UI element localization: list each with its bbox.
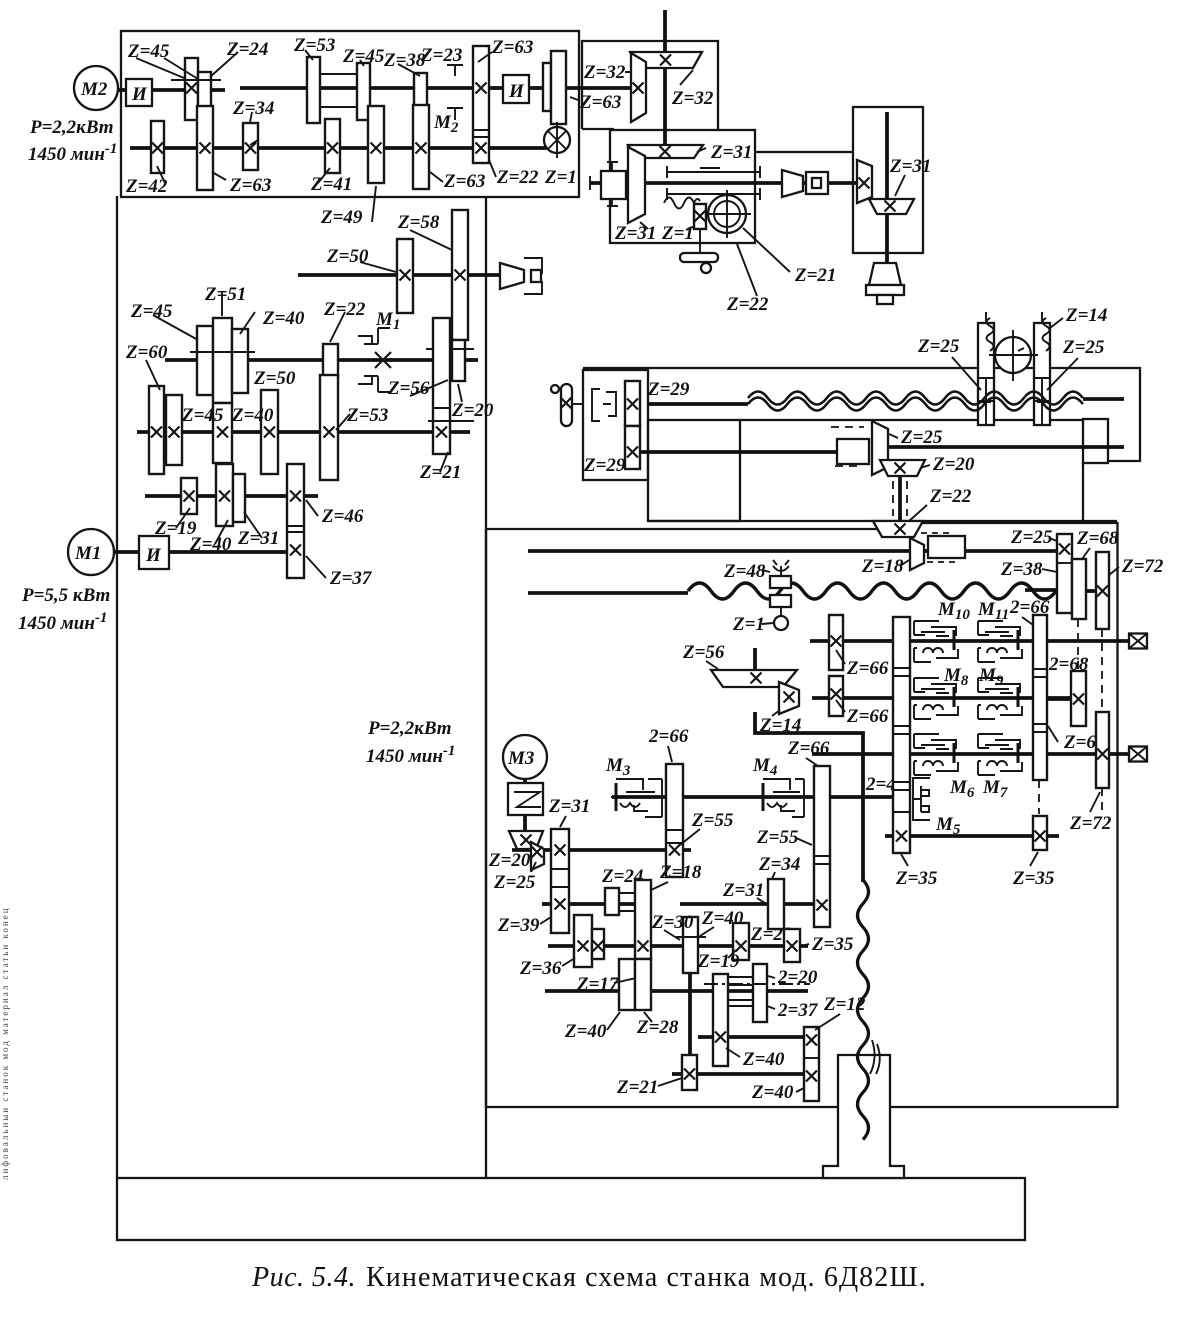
gear Z=20 below Z58 [452,340,465,381]
sleeve links W-X [728,977,753,1006]
svg-text:Z=63: Z=63 [229,175,271,196]
gear Z=49 [368,106,384,183]
gear Z=63/Z=22 block [473,46,489,163]
gear Z=66 right column [814,766,830,927]
bevel Z=31 horizontal [628,145,703,158]
wire feed long shaft lower [528,591,688,595]
clutch M3 [615,783,618,811]
svg-text:Р=2,2кВт: Р=2,2кВт [367,718,452,739]
svg-text:Z=25: Z=25 [1010,527,1053,548]
wire clutch row 3 shaft [812,752,1129,756]
dash below Z66 col [1038,780,1040,814]
svg-text:Z=21: Z=21 [794,265,836,286]
svg-text:Z=37: Z=37 [329,568,373,589]
gear Z=53 (I) [307,57,320,123]
svg-text:Z=18: Z=18 [861,556,904,577]
svg-text:Z=22: Z=22 [496,167,539,188]
cone output [500,263,524,289]
svg-text:Р=5,5 кВт: Р=5,5 кВт [21,585,110,606]
gear Z=36 [574,915,592,967]
gear Z=51 shaft II [213,318,232,403]
belt box И second [503,75,529,103]
svg-text:Z=51: Z=51 [204,284,246,305]
small gear Z=1 vertical [694,204,706,229]
svg-text:Z=32: Z=32 [671,88,714,109]
wire cardan solid shaft [898,476,902,520]
bevel Z=31 vertical right [857,160,872,203]
wire crank lower shaft [640,450,840,454]
gear Z=50 shaft III [261,390,278,474]
svg-text:Z=29: Z=29 [583,455,626,476]
svg-text:Z=68: Z=68 [1076,528,1119,549]
sleeve on overarm shaft [667,166,760,200]
svg-text:Z=20: Z=20 [451,400,494,421]
wire feed row B shaft right [680,902,814,906]
bevel Z=25 on shaft [872,421,888,475]
saddle line [648,520,1117,522]
left column housing left edge [116,196,118,1178]
wire vertical link D-F [688,972,692,1056]
handwheel [699,229,701,253]
svg-text:Z=53: Z=53 [293,35,335,56]
bevel Z=25 M3 [531,842,544,870]
centerline [704,983,810,985]
svg-text:Z=63: Z=63 [491,37,533,58]
dash below Z68 col [1077,619,1079,671]
gear Z=18 column [635,880,651,959]
svg-text:Z=25: Z=25 [1062,337,1105,358]
handwheel circle [995,337,1031,373]
svg-text:2=37: 2=37 [777,1000,819,1021]
cardan dash left [892,481,894,516]
motor M2 [74,66,118,110]
bearing marks right nut [1035,378,1049,402]
svg-text:Z=40: Z=40 [262,308,305,329]
wire clutch row 1 shaft [810,639,1129,643]
wire M3-M4 shaft [612,795,898,799]
svg-text:Z=50: Z=50 [326,246,369,267]
bevel housing top [582,41,718,129]
leaders left compartment [146,292,462,578]
wire right column vertical shaft [885,112,889,268]
gear Z=45b (I) [357,63,370,120]
feed telescopic wave [688,583,1056,599]
ratchet symbols [592,389,616,421]
clutch M8 [914,678,958,719]
svg-text:Z=30: Z=30 [651,912,694,933]
gear Z=60 [149,386,164,474]
svg-text:2=66: 2=66 [648,726,689,747]
gear Z=66 row2 left [829,676,843,716]
output coupling row3 [1129,747,1147,762]
svg-text:Z=56: Z=56 [387,378,430,399]
svg-text:Z=72: Z=72 [1069,813,1112,834]
clutch M1 [358,328,390,344]
svg-text:Z=40: Z=40 [564,1021,607,1042]
svg-text:Z=38: Z=38 [1000,559,1043,580]
svg-text:Z=20: Z=20 [488,850,531,871]
svg-text:Z=40: Z=40 [742,1049,785,1070]
wire drum shaft [298,273,500,277]
svg-text:Z=72: Z=72 [1121,556,1164,577]
svg-text:Z=25: Z=25 [493,872,536,893]
gear Z=68 lower gear [1071,671,1086,726]
gear Z=66 row1 left [829,615,843,670]
block dividers [433,408,450,421]
clutch M10 [914,621,958,662]
svg-text:1450 мин-1: 1450 мин-1 [18,610,107,634]
motor M3 [503,735,547,779]
gear Z=45 shaft III [166,395,182,465]
gear Z=12 col Y [804,1027,819,1101]
svg-text:Z=49: Z=49 [320,207,363,228]
nut housing left [978,323,994,425]
gear Z=31 lower [233,474,245,522]
gear Z=41 [325,119,340,173]
dash below Z72 upper [1101,629,1103,712]
wave accent arcs [870,1040,880,1074]
svg-text:Z=25: Z=25 [900,427,943,448]
wire feed row D shaft [545,989,808,993]
clutch M6 [914,734,958,775]
cone clutch [782,170,803,197]
svg-text:Z=31: Z=31 [614,223,656,244]
wire Z72 upper link [1086,589,1096,593]
gear Z=24 feed [605,888,619,915]
svg-text:Z=45: Z=45 [130,301,173,322]
wire spindle gearbox shaft II [130,146,555,150]
clutch M7 [978,734,1022,775]
wire feed row C shaft [548,944,808,948]
left coupling [582,128,614,130]
svg-text:лифовальныи станок мод материа: лифовальныи станок мод материал статьи к… [0,906,10,1180]
table inner line [740,419,1083,421]
gear Z=22 shaft II [323,344,338,377]
divider of block [473,130,489,137]
shifter Z=23 [447,65,463,76]
clutch M11 [978,621,1022,662]
dial circle Z=22/Z=21 [708,195,746,233]
wire Z68 link shaft [1047,697,1071,701]
dash below coupling [835,465,863,467]
bevel Z=14 vertical [779,682,799,714]
gear Z=40b shaft III [213,403,232,463]
clutch M9 [978,678,1022,719]
svg-text:Z=46: Z=46 [321,506,364,527]
gear Z=38 [414,73,427,107]
gear Z=35 M5 right [1033,816,1047,850]
wire clutch row 2 shaft [812,696,1072,700]
gear Z=66 left column [666,764,683,877]
bevel Z=20 M3 [509,831,543,849]
bearing marks left nut [979,378,993,402]
svg-text:Z=35: Z=35 [1012,868,1055,889]
gear Z=50 drum [397,239,413,313]
svg-text:Рис. 5.4.: Рис. 5.4. [251,1262,356,1293]
gear Z=29 upper [625,381,640,426]
wire feed row F shaft [672,1072,804,1076]
gear Z=72 upper column [1096,552,1109,629]
svg-text:Z=45: Z=45 [127,41,170,62]
wire spindle gearbox shaft I [152,88,225,92]
svg-text:Z=22: Z=22 [726,294,769,315]
cardan dash right [906,481,908,516]
gear Z=56 left block [433,318,450,454]
gear Z=19 feed [733,923,749,960]
svg-text:Z=42: Z=42 [125,176,168,197]
svg-text:Z=29: Z=29 [647,379,690,400]
motor M1 [68,529,114,575]
svg-text:Z=35: Z=35 [895,868,938,889]
output coupling row1 [1129,634,1147,649]
vertical divider wall [485,196,487,1178]
socket bracket [524,258,542,294]
belt box И M1 [139,536,169,569]
svg-text:Z=55: Z=55 [691,810,734,831]
svg-text:2=20: 2=20 [777,967,818,988]
svg-text:М1: М1 [74,543,101,564]
wire M3 motor vertical link [523,779,527,832]
gear Z=45 (I) [185,58,198,120]
machine base [117,1178,1025,1240]
gear Z=63 output narrow [543,63,551,111]
gear Z=58 drum [452,210,468,340]
wire M1 input shaft [168,550,287,554]
gear Z=29 lower [625,426,640,469]
leader Z=32 [570,70,693,100]
svg-text:Z=14: Z=14 [1065,305,1107,326]
svg-text:Z=18: Z=18 [659,862,702,883]
wire feed long shaft upper [528,549,1057,553]
overarm drive housing [610,130,755,243]
svg-text:Z=34: Z=34 [758,854,800,875]
svg-text:Z=17: Z=17 [576,974,620,995]
wire left shaft III [137,430,470,434]
gear Z=20 col X [753,964,767,1022]
svg-text:1450 мин-1: 1450 мин-1 [28,141,117,165]
table leadscrew wave [748,392,1083,405]
wire feed row A shaft [512,848,691,852]
gear Z=40 wide [619,959,635,1010]
svg-text:Z=40: Z=40 [231,405,274,426]
svg-text:Z=66: Z=66 [846,658,889,679]
svg-text:Z=55: Z=55 [756,827,799,848]
svg-text:Z=50: Z=50 [253,368,296,389]
bevel Z=20 [880,460,925,476]
gear Z=63 output [551,51,566,124]
variator box [508,783,543,815]
svg-text:Z=22: Z=22 [323,299,366,320]
svg-text:Z=1: Z=1 [661,223,694,244]
vertical flexible shaft wave [858,880,869,1140]
svg-text:Z=45: Z=45 [181,405,224,426]
svg-text:Кинематическая схема станка: Кинематическая схема станка мод. 6Д82Ш. [366,1262,927,1293]
gear Z=34 [243,123,258,170]
wire vertical bevel shaft [663,10,667,152]
svg-text:М2: М2 [80,79,108,100]
dash above coupling [831,426,864,428]
svg-text:Z=1: Z=1 [732,614,765,635]
svg-text:Z=66: Z=66 [787,738,830,759]
svg-text:Z=20: Z=20 [932,454,975,475]
gear Z=21 feed [682,1055,697,1090]
gear Z=25/Z=38 column [1057,534,1072,613]
gear Z=42 [151,121,164,173]
clutch M4 [762,783,765,811]
svg-text:Z=25: Z=25 [917,336,960,357]
bevel Z=32 horizontal [630,52,702,68]
spring wave [664,198,700,209]
speed gearbox housing [121,31,579,197]
worm circle Z=1 feed [780,607,782,617]
svg-text:Z=66: Z=66 [846,706,889,727]
wire feed row E shaft [698,1035,804,1039]
svg-text:Р=2,2кВт: Р=2,2кВт [29,117,114,138]
svg-text:Z=32: Z=32 [583,62,626,83]
gear Z=53 shaft III [320,375,338,480]
svg-text:Z=21: Z=21 [616,1077,658,1098]
svg-text:Z=41: Z=41 [310,174,352,195]
bevel Z=22 lower [873,521,923,537]
gear Z=48 upper half [770,576,791,588]
feed gearbox housing [486,523,1118,1107]
right column housing [853,107,923,253]
svg-text:Z=28: Z=28 [636,1017,679,1038]
svg-text:Z=34: Z=34 [232,98,274,119]
fork Z=48 [773,560,789,576]
right end rect of table shaft [1083,419,1108,463]
wire M2 motor link [118,88,126,92]
leader lines top box [136,50,496,272]
svg-text:Z=48: Z=48 [723,561,766,582]
belt box И [126,79,152,106]
clutch box [806,172,828,194]
link to right column [755,151,853,153]
table window [648,420,740,521]
gear Z=30/Z=40 col [683,917,698,973]
svg-text:Z=63: Z=63 [443,171,485,192]
pedestal [823,1055,904,1178]
sliding coupling [837,439,869,464]
svg-text:Z=21: Z=21 [419,462,461,483]
table outline [583,368,1140,521]
spring right [1043,318,1050,351]
sliding sleeve [171,74,356,107]
spring left [987,318,994,351]
gear Z=24 [198,72,211,118]
wire left shaft IV [145,494,318,498]
wire crank upper shaft [648,402,748,406]
M5 overrunning clutch fork [913,778,930,820]
wire table screw right end [1083,397,1124,401]
svg-text:Z=58: Z=58 [397,212,440,233]
svg-text:Z=31: Z=31 [889,156,931,177]
gear Z=66 tall column [893,617,910,853]
bevel Z=31 vertical [628,147,645,223]
nut housing right [1034,323,1050,425]
gear Z=35 feed [784,929,800,962]
sleeve Z=18 [928,536,965,558]
wire feed row B shaft left [542,902,637,906]
gear Z=31 input block [551,829,569,933]
gear Z=46/Z=37 block [287,464,304,578]
svg-text:Z=53: Z=53 [346,405,388,426]
svg-text:Z=63: Z=63 [579,92,621,113]
gear Z=40 shaft II [232,329,248,393]
wire Z56 bevel vertical shaft [753,648,757,671]
svg-text:1450 мин-1: 1450 мин-1 [366,743,455,767]
gear Z=72 lower gear [1096,712,1109,788]
gear Z=34 col [768,879,784,929]
bevel Z=31 horizontal right [869,199,914,214]
centerline through cluster [190,349,474,421]
worm circle Z=1 [544,127,570,153]
wire M5 row shaft [885,834,1059,838]
svg-text:Z=56: Z=56 [682,642,725,663]
svg-text:Z=19: Z=19 [697,951,740,972]
svg-text:Z=39: Z=39 [497,915,540,936]
svg-text:Z=40: Z=40 [751,1082,794,1103]
svg-text:Z=36: Z=36 [519,958,562,979]
bevel Z=32 vertical [631,53,646,122]
svg-text:Z=31: Z=31 [710,142,752,163]
thick elbow from Z14 bevel to feed box [755,712,863,882]
gear Z=28 col [635,959,651,1010]
svg-text:Z=35: Z=35 [811,934,854,955]
wire Z18 wave link [1025,588,1058,592]
gear Z=37/Z=20 col W [713,974,728,1066]
cone support bottom [869,263,901,285]
svg-text:Z=22: Z=22 [929,486,972,507]
crank handle [561,384,572,426]
svg-text:Z=31: Z=31 [548,796,590,817]
svg-text:И: И [508,81,525,102]
svg-text:И: И [131,84,148,105]
gear Z=45 shaft II [197,326,213,395]
gear Z=51 lower [216,464,233,526]
svg-text:И: И [145,545,162,566]
wire table drive shaft right [888,445,1124,449]
gear Z=63b (II) [413,105,429,189]
gear Z=66 output column [1033,615,1047,780]
crank box Z29 [583,370,648,480]
shifter M2 [447,108,463,120]
svg-text:Z=14: Z=14 [759,715,801,736]
bevel Z=18 [910,538,924,570]
dash below Z72 lower [1101,788,1103,812]
wire overarm shaft [590,181,857,185]
svg-text:Z=40: Z=40 [189,534,232,555]
gear Z=19 [181,478,197,514]
gear Z=63 (II) [197,106,213,190]
wire left shaft II [165,358,478,362]
block divider [287,526,304,532]
svg-text:М3: М3 [507,748,534,769]
gear Z=48 lower half [770,595,791,607]
svg-text:Z=23: Z=23 [420,45,462,66]
svg-text:Z=1: Z=1 [544,167,577,188]
gear Z=68 upper column [1072,559,1086,619]
bevel Z=56 horizontal [711,670,797,687]
gear Z=17 [592,929,604,959]
